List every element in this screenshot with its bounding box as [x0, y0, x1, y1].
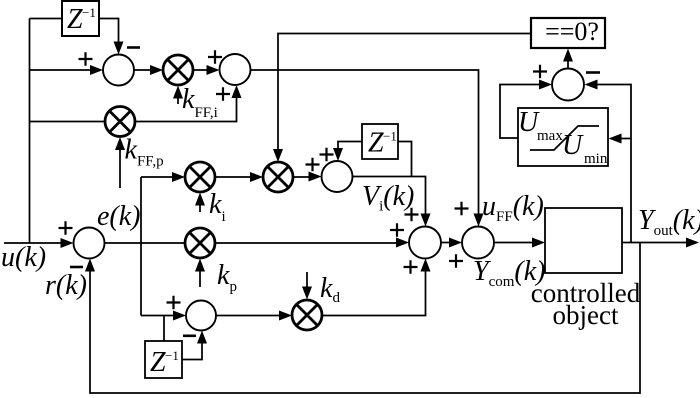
- svg-text:min: min: [584, 151, 608, 167]
- wire output junction up to comparator S7 right: [596, 85, 631, 243]
- delay box Z1a: [62, 1, 99, 36]
- svg-text:max: max: [537, 128, 563, 144]
- svg-text:r(k): r(k): [45, 270, 87, 301]
- wire Z1a output down into sum S1 top: [99, 19, 119, 45]
- sum S3: [322, 161, 353, 192]
- wire S3 output feedback up into Z1b right: [398, 142, 412, 177]
- wire S5 to S6: [441, 242, 450, 244]
- comparator box ==0?: [531, 17, 605, 48]
- sum S4: [74, 228, 105, 259]
- arrowhead into M4 left: [172, 172, 185, 182]
- multiplier M5 kd: [292, 300, 322, 330]
- sum S6: [462, 227, 494, 259]
- delay box Z1b: [362, 124, 398, 159]
- gain arrow kd: [302, 272, 312, 300]
- wire Z1c output right and up into S8 bottom: [182, 343, 202, 360]
- arrowhead into saturation right: [609, 134, 622, 144]
- multiplier Mp kp: [185, 228, 215, 258]
- wire junction right then down into sum S6 top (uFF): [278, 70, 479, 215]
- arrowhead into S6 left: [449, 238, 462, 248]
- wire controlled object output Yout: [622, 242, 687, 244]
- arrowhead into S8 left: [173, 311, 186, 321]
- gain arrow ki: [195, 193, 205, 213]
- wire branch down into Z1c box top: [163, 316, 165, 342]
- sum S7: [552, 69, 584, 101]
- wire M4 to M3: [215, 176, 251, 178]
- delay box Z1c: [145, 341, 182, 378]
- svg-text:Vi(k): Vi(k): [362, 181, 414, 215]
- sign minus S8: [183, 334, 196, 337]
- saturation box Umax Umin: [518, 107, 608, 167]
- arrowhead into S5 bottom: [421, 259, 431, 272]
- svg-text:−1: −1: [82, 5, 96, 20]
- wire u(k) input line: [4, 242, 62, 244]
- wire S7 up into ==0? bottom: [567, 60, 569, 69]
- sign plus S2 bottom: [216, 87, 230, 100]
- multiplier M3: [263, 162, 293, 192]
- multiplier M1 kFF,i: [163, 55, 193, 85]
- wire branch right into multiplier M4 left (ki): [141, 176, 173, 178]
- wire M2 output right and up into S2 bottom: [135, 97, 237, 122]
- wire bus to multiplier M2 left: [30, 121, 106, 123]
- svg-text:U: U: [562, 130, 584, 161]
- sign plus S2 top: [208, 50, 222, 63]
- arrowhead into S8 bottom: [197, 331, 207, 344]
- sign plus S4: [59, 221, 73, 234]
- wire Z1b output left and down into S3 top: [338, 142, 362, 150]
- wire M5 output right then up into S5 bottom: [322, 270, 426, 316]
- arrowhead into S4 bottom: [85, 259, 95, 272]
- sign plus S5 left: [390, 223, 404, 236]
- arrowhead into S2 bottom: [232, 85, 242, 98]
- arrowhead into S1 top: [114, 42, 124, 55]
- wire saturation output left, up, into S7 left: [500, 85, 540, 139]
- arrowhead into S4 left: [61, 238, 74, 248]
- arrowhead into M1 left: [150, 65, 163, 75]
- gain arrow kFF,p: [115, 137, 125, 188]
- sign plus S8: [167, 296, 181, 309]
- svg-text:Z: Z: [368, 128, 384, 159]
- sign plus S6 top: [455, 202, 469, 215]
- wire S1 to multiplier M1: [134, 69, 151, 71]
- wire M1 to sum S2: [193, 69, 208, 71]
- sign plus S5 bottom: [404, 260, 418, 273]
- multiplier M2 kFF,p: [105, 107, 135, 137]
- gain arrow kFF,i: [173, 86, 183, 105]
- sign plus S6 left: [449, 254, 463, 267]
- wire S4 output main line to Mp: [105, 242, 186, 244]
- arrowhead into S5 left: [396, 238, 409, 248]
- sign plus S3 left: [306, 158, 320, 171]
- multiplier M4 ki: [185, 162, 215, 192]
- svg-text:object: object: [553, 300, 619, 330]
- sum S8: [186, 301, 216, 331]
- wire S6 to controlled object: [494, 242, 533, 244]
- arrowhead into S1 left: [90, 65, 103, 75]
- svg-text:uFF(k): uFF(k): [482, 191, 544, 225]
- svg-text:Z: Z: [150, 347, 166, 378]
- svg-text:u(k): u(k): [1, 242, 46, 273]
- sum S2: [220, 54, 251, 85]
- svg-text:Z: Z: [67, 4, 83, 35]
- arrowhead into S3 top: [333, 148, 343, 161]
- arrowhead output Yout: [686, 238, 699, 248]
- arrowhead into S5 top: [421, 214, 431, 227]
- arrowhead into S7 left: [539, 80, 552, 90]
- wire S2 output to junction: [251, 69, 279, 71]
- wire Mp output to sum S5 left: [215, 242, 398, 244]
- wire tap into saturation right edge: [620, 138, 631, 140]
- arrowhead into M3 top: [273, 149, 283, 162]
- arrowhead into ==0? bottom: [563, 49, 573, 62]
- wire left vertical bus: [29, 19, 31, 244]
- arrowhead into S7 right: [585, 80, 598, 90]
- sign plus S7: [533, 65, 547, 78]
- sign plus S3 top: [320, 148, 334, 161]
- sign minus S4: [70, 266, 83, 269]
- controlled object box: [531, 208, 641, 330]
- arrowhead into controlled object left: [532, 238, 545, 248]
- sign minus S1: [127, 46, 140, 49]
- arrowhead into S6 top: [474, 214, 484, 227]
- wire M3 to sum S3 left: [293, 176, 310, 178]
- svg-text:==0?: ==0?: [545, 17, 599, 46]
- svg-text:e(k): e(k): [97, 201, 141, 232]
- wire branch right into sum S8 left: [141, 315, 174, 317]
- svg-text:−1: −1: [165, 348, 179, 363]
- wire S8 output to multiplier M5: [216, 315, 280, 317]
- arrowhead into M5 left: [279, 311, 292, 321]
- wire junction down to multiplier M3 top: [277, 70, 279, 150]
- wire bus to Z1a box: [30, 18, 63, 20]
- wire feedback bottom loop: [90, 243, 640, 394]
- wire junction up and right to ==0? box: [278, 34, 531, 71]
- sign plus S5 top: [405, 208, 419, 221]
- sign minus S7: [586, 71, 600, 74]
- gain arrow kp: [195, 259, 205, 288]
- sign plus S1: [79, 52, 93, 65]
- wire S3 output right then down into S5 top: [353, 177, 426, 216]
- sum S5: [409, 227, 441, 259]
- arrowhead into M3 left: [250, 172, 263, 182]
- arrowhead into S2 left: [207, 65, 220, 75]
- sum S1: [103, 55, 134, 86]
- wire e(k) branch vertical: [140, 177, 142, 316]
- svg-text:−1: −1: [383, 129, 397, 144]
- arrowhead into S3 left: [309, 172, 322, 182]
- wire bus to sum S1 left: [30, 69, 92, 71]
